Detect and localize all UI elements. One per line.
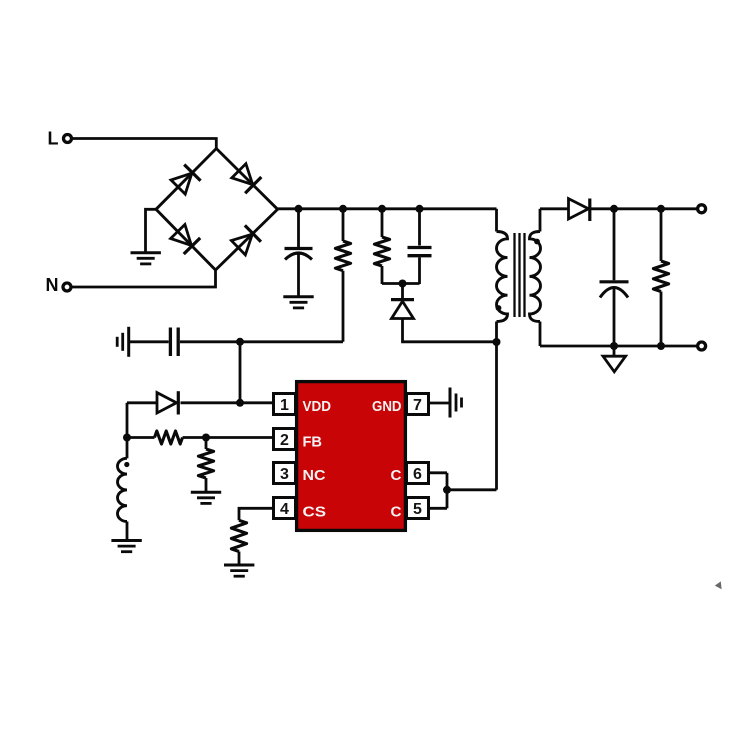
svg-text:6: 6 bbox=[413, 466, 422, 483]
svg-text:C: C bbox=[391, 504, 402, 521]
svg-text:C: C bbox=[391, 467, 402, 484]
svg-text:L: L bbox=[48, 129, 59, 149]
svg-text:4: 4 bbox=[280, 501, 289, 518]
svg-text:VDD: VDD bbox=[303, 398, 332, 415]
svg-text:FB: FB bbox=[303, 433, 323, 450]
svg-text:5: 5 bbox=[413, 501, 422, 518]
svg-text:2: 2 bbox=[280, 432, 289, 449]
svg-text:N: N bbox=[46, 275, 59, 295]
svg-text:NC: NC bbox=[303, 467, 326, 484]
svg-text:CS: CS bbox=[303, 504, 327, 521]
svg-text:3: 3 bbox=[280, 466, 289, 483]
svg-text:1: 1 bbox=[280, 397, 289, 414]
svg-text:7: 7 bbox=[413, 397, 422, 414]
svg-text:GND: GND bbox=[372, 398, 402, 415]
